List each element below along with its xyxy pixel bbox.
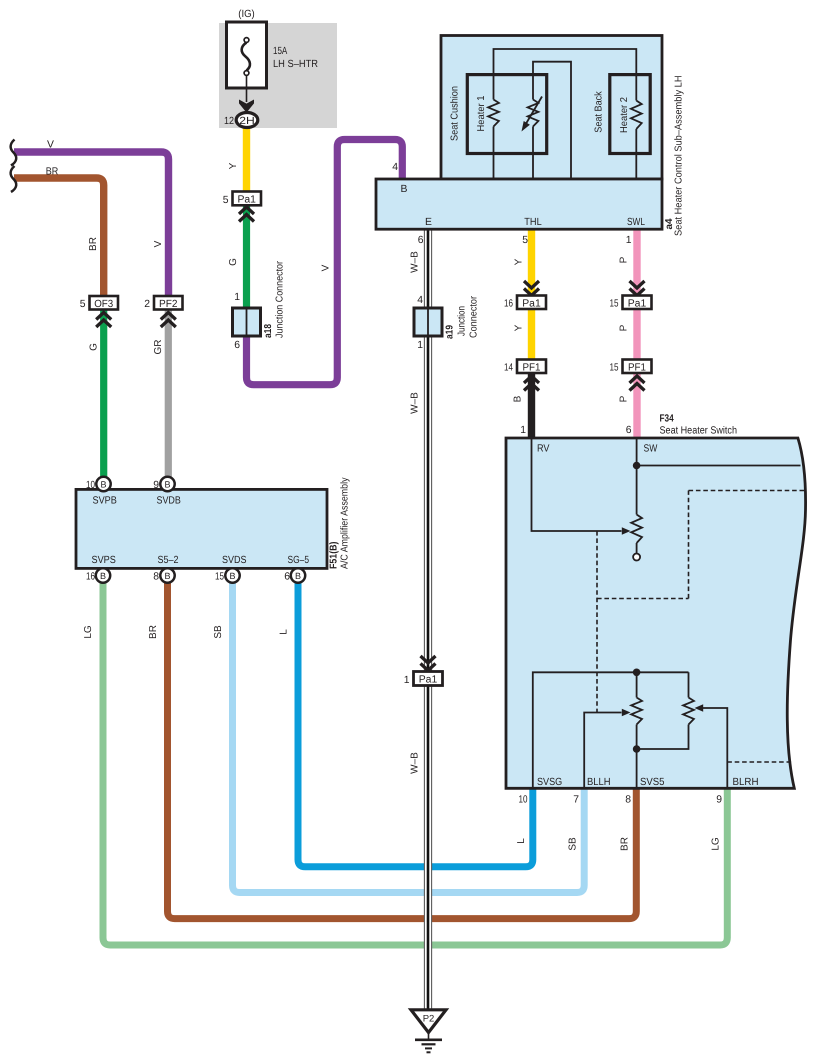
wire BLLH to left wiper arrow xyxy=(584,713,621,789)
svg-text:Heater 1: Heater 1 xyxy=(476,95,487,131)
svg-text:P: P xyxy=(619,256,630,263)
svg-text:SVSG: SVSG xyxy=(537,777,562,788)
svg-text:F51(B): F51(B) xyxy=(329,542,340,570)
svg-text:W–B: W–B xyxy=(410,251,421,273)
svg-text:SVPB: SVPB xyxy=(93,496,117,507)
svg-text:SVDS: SVDS xyxy=(222,555,247,566)
junction connector a19 xyxy=(414,295,480,351)
connector 12 2H xyxy=(224,113,258,128)
svg-text:B: B xyxy=(401,184,408,195)
svg-text:10: 10 xyxy=(86,480,95,491)
wire SB (sky blue) A/C amp SVDS to switch BLLH xyxy=(233,580,585,893)
svg-text:SW: SW xyxy=(644,444,658,455)
svg-text:THL: THL xyxy=(524,217,542,228)
node SW junction dot xyxy=(633,462,641,470)
wire bottom node to SVS5 xyxy=(636,749,638,788)
wire SW node to right edge xyxy=(637,438,801,466)
connector arrows below 5 OF3 xyxy=(96,313,111,328)
potentiometer right resistor xyxy=(683,698,694,725)
wire from fuse to 2H xyxy=(246,76,248,103)
svg-text:6: 6 xyxy=(234,340,240,351)
dashed link horizontal lower xyxy=(597,598,689,600)
seat heater switch F34 xyxy=(506,414,806,806)
wire GR (gray) PF2 to A/C amp pin 9 xyxy=(165,303,172,480)
svg-text:F34: F34 xyxy=(660,414,674,425)
svg-text:Connector: Connector xyxy=(469,295,480,338)
svg-text:W–B: W–B xyxy=(410,392,421,414)
svg-text:BLRH: BLRH xyxy=(733,777,759,788)
svg-text:8: 8 xyxy=(625,795,631,806)
svg-text:Y: Y xyxy=(514,258,525,265)
harness break squiggle (BR wire) xyxy=(11,166,17,192)
svg-text:16: 16 xyxy=(504,299,513,310)
svg-text:Pa1: Pa1 xyxy=(237,195,256,206)
svg-text:P: P xyxy=(619,324,630,331)
svg-text:a18: a18 xyxy=(263,324,274,338)
wire RV to wiper arrow xyxy=(532,438,622,531)
svg-text:V: V xyxy=(321,264,332,271)
svg-text:B: B xyxy=(164,479,170,489)
wire P (pink) SWL to 15 Pa1, 15 PF1, switch pin 6 SW xyxy=(633,229,640,438)
wire BR (brown) A/C amp S5-2 to switch SVS5 xyxy=(168,580,637,919)
svg-text:SVDB: SVDB xyxy=(157,496,181,507)
potentiometer right leads xyxy=(640,672,689,749)
pin 16 B circle xyxy=(96,568,110,582)
svg-text:15: 15 xyxy=(610,299,619,310)
wire V (purple) from harness break to PF2 xyxy=(14,152,169,297)
svg-text:SB: SB xyxy=(213,625,224,639)
svg-text:6: 6 xyxy=(626,425,632,436)
svg-text:W–B: W–B xyxy=(410,752,421,774)
seat back box xyxy=(610,75,650,154)
fuse block background xyxy=(219,23,337,128)
connector 16 Pa1 xyxy=(504,296,546,310)
svg-text:7: 7 xyxy=(573,795,579,806)
connector bar xyxy=(376,179,662,229)
dashed link vertical right xyxy=(688,491,690,599)
wire V feed from a18 pin6 to control box pin 4 (purple) xyxy=(247,140,403,385)
connector 1 Pa1 xyxy=(404,672,443,687)
connector arrows above 1 Pa1 xyxy=(421,656,436,671)
svg-text:A/C Amplifier Assembly: A/C Amplifier Assembly xyxy=(340,478,351,570)
svg-text:Pa1: Pa1 xyxy=(628,298,647,309)
svg-text:a19: a19 xyxy=(445,325,456,339)
svg-text:SWL: SWL xyxy=(627,217,645,228)
svg-text:5: 5 xyxy=(80,299,86,310)
svg-text:G: G xyxy=(228,258,239,266)
wire L (blue) A/C amp SG-5 to switch SVSG xyxy=(298,580,533,867)
svg-text:SVS5: SVS5 xyxy=(640,777,665,788)
svg-text:G: G xyxy=(89,343,100,351)
svg-text:5: 5 xyxy=(522,235,528,246)
svg-text:15: 15 xyxy=(610,363,619,374)
svg-text:1: 1 xyxy=(234,292,240,303)
svg-text:L: L xyxy=(279,629,290,635)
svg-text:Pa1: Pa1 xyxy=(419,675,438,686)
upper body box xyxy=(441,36,662,180)
svg-text:LG: LG xyxy=(83,625,94,639)
svg-text:Junction: Junction xyxy=(457,306,468,336)
pin 10 B circle xyxy=(96,477,110,491)
wire B (black) 14 PF1 to switch pin 1 RV xyxy=(528,366,535,438)
svg-text:BR: BR xyxy=(46,166,59,177)
svg-text:P: P xyxy=(619,395,630,402)
svg-text:1: 1 xyxy=(404,675,410,686)
svg-text:B: B xyxy=(513,395,524,402)
svg-text:BR: BR xyxy=(620,837,631,851)
wire SVSG up and rail to potentiometers xyxy=(533,672,689,788)
connector 14 PF1 xyxy=(504,360,546,374)
switch wiper resistor (upper) xyxy=(631,515,642,544)
svg-text:10: 10 xyxy=(519,795,528,806)
wire heater1 top rail xyxy=(494,49,637,101)
connector arrows below 5 Pa1 xyxy=(239,207,254,222)
dashed link horizontal to right edge xyxy=(689,490,805,492)
svg-text:15: 15 xyxy=(215,572,224,583)
junction connector a18 xyxy=(233,260,286,351)
wire BR (brown) from harness break to OF3 xyxy=(14,178,104,297)
svg-text:RV: RV xyxy=(537,444,550,455)
connector arrows below 14 PF1 xyxy=(524,376,539,391)
svg-text:Pa1: Pa1 xyxy=(522,298,541,309)
svg-text:LH S–HTR: LH S–HTR xyxy=(273,59,318,70)
wiper arrowhead (right pot) xyxy=(695,704,704,712)
svg-text:BLLH: BLLH xyxy=(587,777,611,788)
svg-text:15A: 15A xyxy=(273,46,287,57)
wiper arrowhead (left pot) xyxy=(622,709,631,717)
svg-text:BR: BR xyxy=(148,625,159,639)
svg-text:6: 6 xyxy=(418,235,424,246)
wire G (green) OF3 to A/C amp pin 10 xyxy=(100,303,107,480)
wire W-B (white/black) control box E to ground P2 xyxy=(424,229,431,1010)
wire Y (yellow) THL to 16 Pa1 and on to 14 PF1 xyxy=(528,229,535,366)
svg-text:B: B xyxy=(229,571,235,581)
svg-text:L: L xyxy=(516,838,527,844)
svg-text:6: 6 xyxy=(284,572,290,583)
svg-text:B: B xyxy=(100,479,106,489)
seat heater control sub-assembly LH a4 xyxy=(376,36,685,247)
connector 5 OF3 xyxy=(80,296,118,310)
wiper arrowhead (upper) xyxy=(622,527,631,535)
connector arrows above 16 Pa1 xyxy=(524,281,539,296)
node rail junction dot xyxy=(633,669,641,677)
svg-text:Y: Y xyxy=(228,162,239,169)
wire Y (yellow) fuse 2H to connector 5 Pa1 xyxy=(243,126,250,198)
heater 1 resistor xyxy=(488,100,499,127)
svg-text:Seat Cushion: Seat Cushion xyxy=(450,86,461,141)
svg-text:2: 2 xyxy=(144,299,150,310)
svg-text:S5–2: S5–2 xyxy=(158,555,179,566)
thermistor (variable resistor) xyxy=(528,100,539,127)
svg-text:B: B xyxy=(164,571,170,581)
svg-text:LG: LG xyxy=(711,837,722,851)
svg-text:Junction Connector: Junction Connector xyxy=(275,260,286,338)
svg-text:GR: GR xyxy=(153,340,164,355)
svg-text:B: B xyxy=(295,571,301,581)
heater 2 resistor xyxy=(631,101,642,130)
svg-text:E: E xyxy=(425,217,432,228)
svg-text:4: 4 xyxy=(417,295,423,306)
dashed mechanical link vertical xyxy=(596,531,598,713)
A/C amplifier assembly F51(B) xyxy=(76,477,351,583)
svg-text:PF1: PF1 xyxy=(628,362,646,373)
wire BLRH to right wiper arrow xyxy=(703,708,727,788)
svg-text:Heater 2: Heater 2 xyxy=(619,97,630,133)
svg-text:V: V xyxy=(153,240,164,247)
svg-text:16: 16 xyxy=(86,572,95,583)
connector arrows below 15 PF1 xyxy=(630,376,645,391)
wire LG (light green) A/C amp SVPS to switch BLRH xyxy=(103,580,727,945)
wire G (green) 5 Pa1 to junction a18 xyxy=(243,198,250,310)
svg-text:Seat Back: Seat Back xyxy=(594,90,605,132)
svg-text:PF2: PF2 xyxy=(159,299,178,310)
svg-text:P2: P2 xyxy=(423,1014,435,1025)
svg-text:9: 9 xyxy=(716,795,722,806)
svg-text:2H: 2H xyxy=(239,116,255,127)
svg-text:PF1: PF1 xyxy=(523,362,541,373)
svg-text:SG–5: SG–5 xyxy=(288,555,310,566)
svg-text:Y: Y xyxy=(514,324,525,331)
svg-text:4: 4 xyxy=(392,162,398,173)
arrow into connector 2H xyxy=(239,100,254,113)
svg-text:14: 14 xyxy=(504,363,513,374)
svg-text:B: B xyxy=(100,571,106,581)
svg-text:OF3: OF3 xyxy=(94,299,113,310)
wire heater2 bottom lead xyxy=(635,129,637,179)
svg-text:(IG): (IG) xyxy=(238,9,255,20)
svg-text:5: 5 xyxy=(223,195,229,206)
dashed link lower right to edge xyxy=(727,761,791,763)
pin 9 B circle xyxy=(160,477,174,491)
svg-text:Seat Heater Switch: Seat Heater Switch xyxy=(660,426,738,437)
connector 15 Pa1 xyxy=(610,296,652,310)
connector 5 Pa1 xyxy=(223,192,261,206)
connector arrows below 2 PF2 xyxy=(161,313,176,328)
open contact below wiper resistor xyxy=(636,543,638,554)
pin 8 B circle xyxy=(160,568,174,582)
svg-text:SVPS: SVPS xyxy=(92,555,116,566)
svg-text:1: 1 xyxy=(520,425,526,436)
svg-text:SB: SB xyxy=(568,837,579,851)
connector 15 PF1 xyxy=(610,360,652,374)
svg-text:1: 1 xyxy=(626,235,632,246)
potentiometer left resistor xyxy=(631,698,642,725)
wire heater1 bottom lead xyxy=(493,127,495,180)
svg-text:8: 8 xyxy=(153,572,159,583)
harness break squiggle (V wire) xyxy=(11,140,17,166)
wire variable-resistor top rail xyxy=(533,62,571,179)
ground P2 xyxy=(411,1010,446,1053)
fuse 15A LH S-HTR (IG) xyxy=(227,9,319,88)
svg-text:Seat Heater Control Sub–Assemb: Seat Heater Control Sub–Assembly LH xyxy=(674,76,685,237)
svg-text:9: 9 xyxy=(153,480,159,491)
potentiometer left leads xyxy=(636,672,638,749)
seat cushion box xyxy=(467,75,546,154)
wire variable-resistor bottom lead xyxy=(532,127,534,180)
wire SW node down to wiper resistor xyxy=(636,466,638,515)
connector 2 PF2 xyxy=(144,296,182,310)
pin 6 B circle xyxy=(291,568,305,582)
connector arrows above 15 Pa1 xyxy=(630,281,645,296)
node bottom junction dot xyxy=(633,745,641,753)
svg-text:1: 1 xyxy=(417,340,423,351)
svg-text:V: V xyxy=(47,139,54,150)
svg-text:12: 12 xyxy=(224,116,234,127)
svg-text:BR: BR xyxy=(88,237,99,251)
pin 15 B circle xyxy=(225,568,239,582)
